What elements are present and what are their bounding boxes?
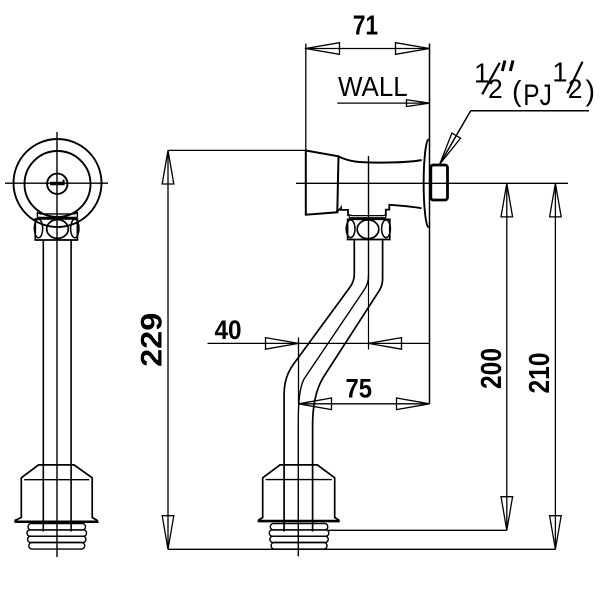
button circle <box>47 174 67 194</box>
side bell inner shoulder line <box>266 479 332 481</box>
229 top arrow <box>162 150 174 184</box>
body top profile <box>339 157 422 163</box>
210 bottom arrow <box>550 516 562 550</box>
svg-text:PJ: PJ <box>523 79 552 112</box>
40 left arrow <box>266 338 299 350</box>
leader line to nipple <box>440 111 471 165</box>
229 top reference line <box>168 149 306 151</box>
40 right extension tick <box>368 274 370 350</box>
40 right arrow <box>369 338 402 350</box>
75 left arrow <box>299 398 332 410</box>
pipe size label: 1/2"(PJ1/2) <box>474 57 595 112</box>
fraction slash (second) <box>567 62 582 93</box>
front nut center facet ellipse <box>47 220 69 239</box>
wall vertical line <box>429 44 431 404</box>
fraction slash (first) <box>482 63 500 95</box>
229 dimension line <box>167 150 169 549</box>
leader arrow <box>440 133 461 164</box>
side horizontal centerline <box>296 182 568 184</box>
svg-text:210: 210 <box>524 353 556 394</box>
front threads <box>27 524 87 550</box>
button slot bar <box>50 180 65 186</box>
svg-text:40: 40 <box>215 315 242 345</box>
wall flange arc <box>424 139 429 227</box>
front pipe left line <box>42 240 44 532</box>
side washer band <box>349 215 386 218</box>
200 top arrow <box>501 183 513 217</box>
threaded nipple <box>431 165 448 200</box>
svg-text:71: 71 <box>353 10 379 41</box>
side nut body <box>348 219 390 239</box>
front washer band <box>37 213 77 218</box>
svg-text:WALL: WALL <box>338 71 408 102</box>
svg-text:2: 2 <box>488 74 503 104</box>
front horizontal centerline <box>5 182 108 184</box>
200 bottom arrow <box>501 497 513 531</box>
210 dimension line <box>554 183 556 549</box>
side pipe left outline <box>284 240 354 532</box>
bottom reference line (229/210) <box>168 548 555 550</box>
front bell base line <box>15 521 99 523</box>
front nut body <box>35 219 77 240</box>
71 dimension line <box>305 48 430 50</box>
svg-text:229: 229 <box>136 313 169 367</box>
WALL underline leader <box>337 102 430 104</box>
side vertical centerline with S-bend <box>298 156 368 556</box>
71 left arrow <box>306 43 340 55</box>
svg-text:2: 2 <box>568 74 583 104</box>
side bell base line <box>258 520 340 522</box>
71 right arrow <box>396 43 430 55</box>
229 bottom arrow <box>162 516 174 550</box>
front bell socket <box>15 465 97 521</box>
front pipe right line <box>70 240 72 532</box>
side nut center facet ellipse <box>357 220 379 239</box>
body bottom-left profile and neck left step <box>336 208 348 216</box>
75 right arrow <box>397 398 430 410</box>
handle inner circle <box>25 151 91 217</box>
40 dimension line <box>208 342 430 344</box>
inch double prime <box>502 61 505 72</box>
front nut left facet ellipse <box>34 219 42 237</box>
side nut left facet ellipse <box>346 220 355 238</box>
front vertical centerline <box>56 132 58 557</box>
svg-text:75: 75 <box>346 374 373 404</box>
71 left extension line <box>305 44 307 151</box>
svg-text:1: 1 <box>552 57 567 88</box>
cap (push button) <box>306 151 339 215</box>
200 dimension line <box>506 183 508 530</box>
side bell socket <box>259 465 339 521</box>
label underline for pipe size <box>471 110 589 112</box>
200 bottom reference line <box>327 529 507 531</box>
side pipe right outline <box>313 240 383 532</box>
front nut right facet ellipse <box>71 219 79 237</box>
handle outer circle <box>14 139 102 227</box>
WALL arrow <box>407 100 430 107</box>
body neck right step and bottom-right profile <box>386 205 422 216</box>
front bell inner shoulder line <box>24 479 89 481</box>
75 dimension line <box>299 403 430 405</box>
svg-text:): ) <box>586 76 596 108</box>
side nut right facet ellipse <box>382 220 391 238</box>
svg-text:200: 200 <box>476 348 508 389</box>
svg-text:(: ( <box>512 76 522 108</box>
40 left extension line (lower pipe centerline) <box>298 338 300 405</box>
side threads <box>269 524 329 550</box>
210 top arrow <box>550 183 562 217</box>
